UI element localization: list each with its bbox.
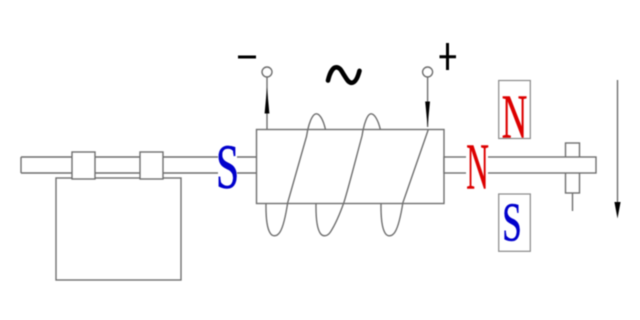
svg-text:S: S <box>502 192 522 253</box>
core <box>257 130 445 204</box>
pole label S on shaft (white backing) <box>218 145 237 188</box>
motion arrowhead down <box>614 202 620 219</box>
right bearing support <box>566 143 580 193</box>
pole label N on right shaft (white backing) <box>466 142 488 188</box>
right bearing pin <box>572 193 574 211</box>
AC sine symbol <box>328 67 360 83</box>
motion arrow line at far right <box>617 80 619 203</box>
positive terminal lead wire <box>427 77 429 127</box>
plus sign <box>440 43 457 70</box>
negative terminal circle <box>262 67 272 77</box>
coil turn 2 <box>316 114 380 236</box>
right shaft <box>444 157 596 173</box>
base box <box>56 178 181 280</box>
current arrow down at positive lead <box>425 102 430 127</box>
svg-text:N: N <box>502 83 528 152</box>
bearing support 1 <box>72 152 95 179</box>
positive terminal circle <box>423 67 433 77</box>
current arrow up at negative lead <box>265 88 270 114</box>
coil turn 3 <box>381 130 428 236</box>
magnet N box <box>499 81 531 139</box>
svg-text:N: N <box>466 131 489 204</box>
minus sign <box>238 56 256 59</box>
svg-text:S: S <box>216 131 239 202</box>
magnet S box <box>499 194 531 251</box>
left shaft <box>21 157 257 173</box>
bearing support 2 <box>140 152 163 179</box>
coil turn 1 <box>266 114 325 236</box>
negative terminal lead wire <box>266 77 268 130</box>
